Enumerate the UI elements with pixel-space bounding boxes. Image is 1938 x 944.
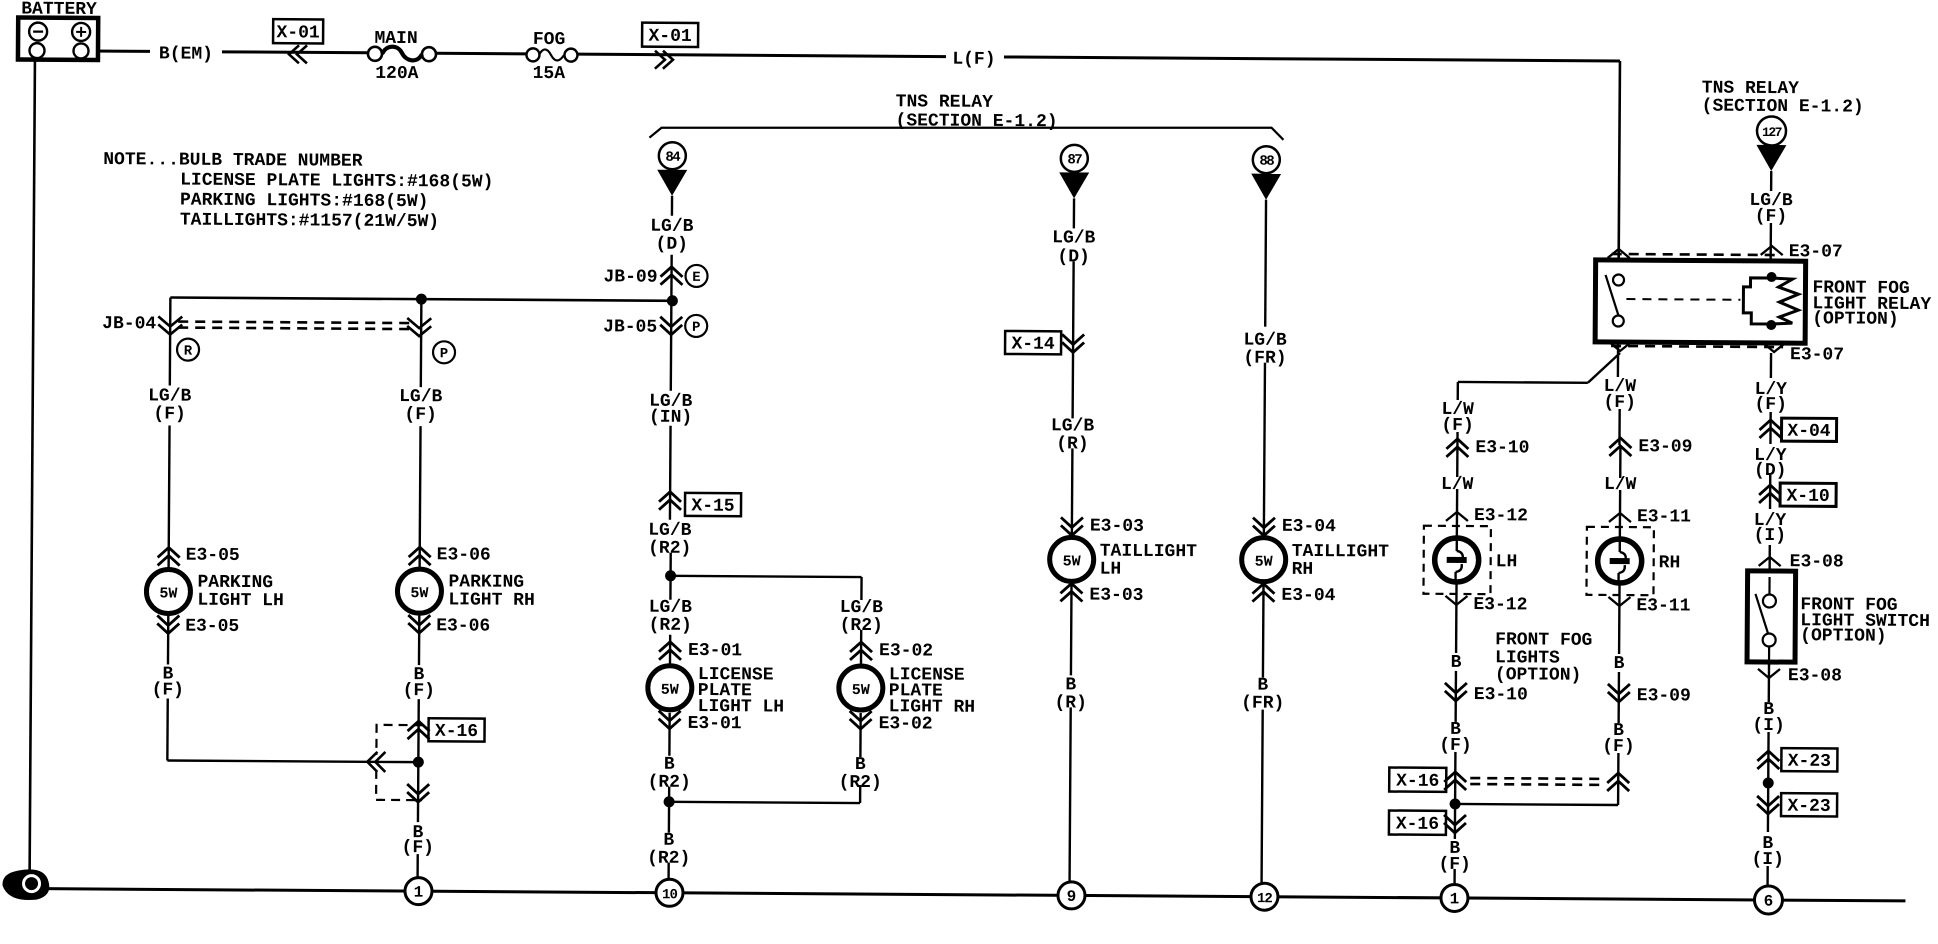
svg-text:E: E	[692, 270, 701, 286]
connector E3-09 upper	[1609, 437, 1692, 458]
license plate light LH bulb 5W	[648, 665, 785, 718]
svg-text:6: 6	[1764, 892, 1774, 910]
svg-text:(R2): (R2)	[647, 849, 690, 869]
svg-text:(D): (D)	[655, 235, 688, 255]
svg-text:X-16: X-16	[1396, 815, 1439, 835]
connector X-23 lower	[1757, 793, 1837, 817]
svg-text:JB-09: JB-09	[603, 267, 657, 287]
connector E3-08 upper	[1759, 552, 1844, 573]
connector E3-06 upper parking RH	[409, 545, 491, 566]
connector E3-01 upper	[659, 641, 742, 662]
svg-text:(R): (R)	[1056, 434, 1089, 454]
svg-text:(F): (F)	[152, 680, 185, 700]
connector E3-12 lower	[1445, 595, 1527, 616]
license plate light RH bulb 5W	[839, 665, 976, 718]
license LH column wire	[669, 553, 672, 600]
ground terminal 9	[1058, 882, 1085, 909]
svg-text:5W: 5W	[159, 585, 177, 602]
svg-text:15A: 15A	[533, 64, 566, 84]
svg-text:LH: LH	[1496, 552, 1518, 572]
svg-text:FOG: FOG	[533, 30, 566, 50]
svg-text:X-01: X-01	[276, 23, 320, 43]
junction JB-09 with pin E	[603, 264, 707, 288]
svg-text:B: B	[1614, 654, 1625, 674]
svg-text:5W: 5W	[410, 585, 428, 602]
connector X-01 (left)	[273, 19, 323, 63]
svg-text:(F): (F)	[403, 681, 436, 701]
X-23 junction dot	[1763, 777, 1774, 788]
connector X-10	[1759, 483, 1836, 507]
connector E3-03 upper	[1061, 516, 1144, 537]
svg-text:(I): (I)	[1754, 526, 1787, 546]
svg-text:(F): (F)	[1602, 737, 1635, 757]
taillight RH column wire	[1264, 363, 1265, 536]
battery	[18, 0, 98, 60]
connector E3-02 upper	[850, 641, 933, 662]
fog RH column wire	[1617, 353, 1620, 377]
svg-text:E3-09: E3-09	[1638, 437, 1692, 457]
connector E3-01 lower	[659, 711, 742, 735]
svg-text:E3-03: E3-03	[1089, 586, 1143, 606]
parking light RH column wire	[418, 299, 422, 878]
fog LH column wire	[1457, 382, 1460, 400]
connector E3-11 lower	[1608, 596, 1690, 617]
svg-text:E3-04: E3-04	[1281, 586, 1335, 606]
svg-text:E3-05: E3-05	[185, 617, 239, 637]
pin R circled	[177, 339, 199, 361]
ground point symbol bottom left	[2, 869, 49, 900]
svg-text:E3-10: E3-10	[1474, 685, 1528, 705]
ground terminal 6	[1754, 886, 1782, 914]
svg-text:(OPTION): (OPTION)	[1800, 626, 1887, 647]
svg-text:(R2): (R2)	[839, 773, 882, 793]
junction dot at parking RH column	[416, 294, 427, 305]
TNS relay bracket over pins 84/87/88	[649, 91, 1283, 142]
svg-text:X-15: X-15	[691, 496, 734, 516]
connector E3-07 upper	[1761, 223, 1843, 278]
svg-text:P: P	[692, 320, 701, 336]
svg-text:LIGHT RH: LIGHT RH	[448, 590, 535, 611]
svg-text:(F): (F)	[1603, 393, 1636, 413]
svg-text:R: R	[184, 344, 193, 360]
svg-text:(F): (F)	[402, 838, 435, 858]
connector E3-04 upper	[1253, 517, 1336, 538]
node 84 terminal	[657, 142, 687, 216]
svg-text:E3-03: E3-03	[1090, 517, 1144, 537]
connector X-16 fog joint	[1389, 768, 1629, 837]
front fog light relay box	[1595, 249, 1932, 353]
wire B(EM) label	[159, 44, 213, 64]
svg-text:B(EM): B(EM)	[159, 44, 213, 64]
svg-text:(R2): (R2)	[649, 616, 692, 636]
connector X-16 parking joint	[367, 718, 485, 803]
svg-text:84: 84	[665, 150, 680, 166]
license RH column wire	[860, 577, 863, 600]
parking light LH bulb 5W	[146, 569, 284, 614]
svg-text:LICENSE PLATE LIGHTS:#168(5W): LICENSE PLATE LIGHTS:#168(5W)	[180, 171, 493, 193]
svg-text:5W: 5W	[1063, 553, 1081, 570]
front fog light LH bulb	[1423, 526, 1517, 595]
svg-text:(OPTION): (OPTION)	[1495, 665, 1582, 686]
svg-text:X-04: X-04	[1787, 422, 1831, 442]
svg-text:X-16: X-16	[435, 722, 478, 742]
svg-text:(I): (I)	[1752, 716, 1785, 736]
svg-text:NOTE...BULB TRADE NUMBER: NOTE...BULB TRADE NUMBER	[103, 150, 363, 172]
svg-text:X-16: X-16	[1396, 772, 1439, 792]
svg-text:(F): (F)	[404, 405, 437, 425]
svg-text:5W: 5W	[661, 682, 679, 699]
supply drop wire to fog relay switch	[1619, 61, 1620, 275]
connector X-04	[1759, 418, 1836, 442]
node 88 terminal	[1250, 146, 1281, 327]
license branch horizontal	[671, 576, 862, 577]
license ground link horizontal	[669, 802, 860, 803]
connector X-23 upper	[1757, 748, 1837, 772]
svg-text:9: 9	[1067, 888, 1077, 906]
license ground junction dot	[664, 796, 675, 807]
connector E3-02 lower	[850, 711, 933, 735]
front fog light switch box	[1747, 571, 1930, 667]
svg-text:5W: 5W	[852, 682, 870, 699]
svg-text:JB-04: JB-04	[102, 314, 156, 334]
svg-text:E3-11: E3-11	[1636, 596, 1690, 616]
connector X-15	[659, 492, 741, 517]
connector E3-07 lower	[1790, 345, 1844, 365]
junction dot at license column	[667, 295, 678, 306]
license branch junction dot	[665, 570, 676, 581]
svg-text:PARKING LIGHTS:#168(5W): PARKING LIGHTS:#168(5W)	[180, 191, 429, 213]
node 87 terminal	[1059, 145, 1090, 229]
ground terminal 1 fog	[1441, 884, 1468, 911]
svg-text:(R2): (R2)	[648, 773, 691, 793]
parking LH ground link to RH column	[167, 760, 416, 762]
pin P circled	[433, 341, 455, 363]
ground terminal 10 license	[656, 879, 683, 906]
svg-text:X-14: X-14	[1011, 335, 1055, 355]
connector E3-03 lower	[1060, 583, 1143, 606]
svg-text:1: 1	[1450, 890, 1460, 908]
connector E3-05 lower parking LH	[157, 615, 239, 637]
wire LG/B (D) label license column	[650, 217, 694, 255]
svg-text:E3-06: E3-06	[437, 545, 491, 565]
svg-text:E3-02: E3-02	[879, 641, 933, 661]
svg-text:LIGHT LH: LIGHT LH	[197, 591, 284, 612]
svg-text:120A: 120A	[375, 64, 419, 84]
ground terminal 1 parking	[405, 878, 432, 905]
svg-text:(IN): (IN)	[649, 408, 692, 428]
svg-text:X-23: X-23	[1787, 797, 1830, 817]
note bulb trade numbers	[103, 150, 494, 233]
svg-text:LG/B: LG/B	[1052, 228, 1096, 248]
svg-text:(F): (F)	[1441, 416, 1474, 436]
svg-text:(F): (F)	[1438, 855, 1471, 875]
svg-text:(OPTION): (OPTION)	[1812, 309, 1899, 330]
svg-text:B: B	[1451, 653, 1462, 673]
license column upper wire	[670, 255, 672, 520]
svg-text:E3-06: E3-06	[436, 616, 490, 636]
wire L(F) label	[952, 50, 995, 70]
svg-text:10: 10	[662, 887, 678, 903]
svg-text:(F): (F)	[1754, 395, 1787, 415]
connector E3-09 lower	[1608, 684, 1691, 707]
junction JB-05 with pin P	[603, 314, 707, 338]
svg-text:(R2): (R2)	[840, 616, 883, 636]
connector E3-04 lower	[1252, 584, 1335, 607]
svg-text:E3-09: E3-09	[1637, 686, 1691, 706]
connector E3-08 lower	[1758, 666, 1842, 687]
svg-text:LH: LH	[1100, 560, 1122, 580]
svg-text:E3-11: E3-11	[1637, 507, 1691, 527]
connector X-01 (right)	[642, 23, 698, 69]
fusible link MAIN 120A	[368, 29, 436, 84]
connector E3-11 upper	[1609, 507, 1691, 528]
svg-text:(D): (D)	[1754, 461, 1787, 481]
svg-text:E3-12: E3-12	[1473, 595, 1527, 615]
connector E3-10 lower	[1445, 683, 1528, 706]
svg-text:E3-12: E3-12	[1474, 506, 1528, 526]
front fog light RH bulb	[1586, 527, 1680, 596]
ground terminal 12	[1251, 883, 1278, 910]
svg-text:X-01: X-01	[648, 27, 692, 47]
taillight LH column wire	[1073, 261, 1074, 418]
svg-text:(SECTION E-1.2): (SECTION E-1.2)	[895, 111, 1057, 132]
svg-text:E3-04: E3-04	[1282, 517, 1336, 537]
battery negative wire down left side	[30, 58, 35, 876]
horizontal link parking columns to license column	[170, 298, 672, 301]
svg-text:E3-07: E3-07	[1790, 345, 1844, 365]
connector X-14	[1005, 331, 1084, 355]
svg-text:88: 88	[1259, 154, 1274, 170]
svg-text:P: P	[440, 346, 449, 362]
svg-text:5W: 5W	[1255, 554, 1273, 571]
svg-text:E3-01: E3-01	[688, 714, 742, 734]
svg-text:E3-05: E3-05	[186, 546, 240, 566]
svg-text:(SECTION E-1.2): (SECTION E-1.2)	[1702, 97, 1864, 118]
svg-text:(F): (F)	[153, 404, 186, 424]
svg-text:(F): (F)	[1439, 736, 1472, 756]
svg-text:E3-02: E3-02	[879, 714, 933, 734]
svg-text:E3-01: E3-01	[688, 641, 742, 661]
svg-text:L/W: L/W	[1441, 475, 1474, 495]
connector E3-12 upper	[1446, 506, 1528, 527]
svg-text:127: 127	[1762, 125, 1782, 140]
JB-04 double dashed jumper	[102, 314, 431, 336]
connector E3-10 upper	[1446, 438, 1529, 459]
svg-text:E3-10: E3-10	[1475, 438, 1529, 458]
taillight LH bulb 5W	[1050, 537, 1198, 582]
top supply rail from battery	[89, 51, 1620, 61]
svg-text:87: 87	[1067, 152, 1082, 168]
svg-text:(I): (I)	[1751, 850, 1784, 870]
svg-text:JB-05: JB-05	[603, 317, 657, 337]
svg-text:1: 1	[414, 884, 424, 902]
svg-text:E3-08: E3-08	[1788, 666, 1842, 686]
fog switch column wire	[1770, 353, 1773, 378]
svg-text:(FR): (FR)	[1241, 694, 1284, 714]
parking light RH bulb 5W	[397, 569, 535, 614]
svg-text:X-23: X-23	[1788, 752, 1831, 772]
fuse FOG 15A	[526, 30, 577, 84]
connector E3-05 upper parking LH	[158, 545, 240, 566]
svg-text:X-10: X-10	[1786, 487, 1829, 507]
front fog lights option label	[1495, 630, 1593, 686]
svg-text:RH: RH	[1659, 553, 1681, 573]
svg-text:TNS RELAY: TNS RELAY	[896, 92, 994, 113]
connector E3-06 lower parking RH	[408, 615, 490, 637]
svg-text:TAILLIGHTS:#1157(21W/5W): TAILLIGHTS:#1157(21W/5W)	[180, 211, 439, 233]
svg-text:L(F): L(F)	[952, 50, 995, 70]
node 127 terminal TNS relay	[1701, 79, 1864, 192]
relay switched output Y-split	[1458, 341, 1620, 383]
parking light LH column wire	[167, 298, 170, 761]
svg-text:(R): (R)	[1054, 693, 1087, 713]
svg-text:L/W: L/W	[1604, 475, 1637, 495]
svg-text:RH: RH	[1292, 560, 1314, 580]
taillight RH bulb 5W	[1242, 538, 1390, 583]
bottom ground bus	[45, 889, 1906, 901]
svg-text:12: 12	[1257, 891, 1273, 907]
